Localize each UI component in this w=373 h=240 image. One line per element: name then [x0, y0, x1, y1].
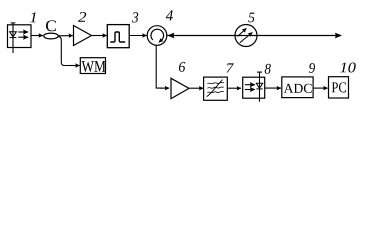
label 10: [340, 63, 356, 73]
label 2: [78, 12, 86, 22]
coupler C: [44, 33, 59, 39]
label 7: [227, 63, 234, 72]
label C: [46, 20, 56, 31]
laser electrode top tick: [11, 22, 16, 24]
amplifier 2: [74, 26, 92, 46]
wire laser to coupler C: [31, 35, 43, 37]
detector input arrows: [245, 85, 255, 90]
arrowhead into circulator (pointing left): [167, 33, 174, 39]
pulse modulator box 3: [107, 25, 129, 48]
filter waves: [207, 80, 224, 97]
filter box 7: [204, 77, 228, 100]
PC box 10: [329, 77, 349, 98]
wire filter to detector: [227, 87, 241, 89]
label 1: [30, 12, 36, 22]
wire detector to ADC: [265, 87, 281, 89]
laser diode: [10, 32, 17, 38]
laser electrode vertical line: [12, 23, 14, 53]
wire coupler to amp 2: [58, 35, 73, 37]
detector diode: [256, 83, 262, 89]
wire coupler to WM: [58, 36, 70, 65]
detector electrode top tick: [257, 71, 262, 73]
attenuator 5: [235, 25, 257, 47]
WM box: [80, 58, 105, 74]
circulator 4: [147, 26, 167, 46]
detector box 8: [243, 77, 265, 98]
label 3: [132, 12, 138, 22]
pulse symbol: [110, 32, 125, 42]
fiber line to the right: [167, 35, 336, 37]
circulator rotation arc: [151, 29, 164, 40]
amplifier 6: [171, 78, 189, 98]
wire ADC to PC: [313, 87, 328, 89]
wire pulse modulator to circulator: [129, 35, 146, 37]
label 4: [166, 10, 173, 20]
detector electrode vertical line: [259, 72, 261, 102]
label 9: [309, 63, 315, 73]
wire amp 6 to filter: [189, 87, 203, 89]
label 5: [248, 13, 254, 23]
ADC box 9: [282, 77, 313, 98]
wire amp 2 to pulse modulator: [92, 35, 107, 37]
label 8: [265, 64, 271, 74]
filter diagonal: [207, 80, 223, 97]
wire circulator down to amp 6: [156, 45, 163, 88]
label 6: [179, 62, 185, 72]
arrowhead at right end (pointing right): [335, 33, 342, 39]
laser emission arrows: [18, 32, 28, 37]
laser box 1: [8, 25, 32, 48]
